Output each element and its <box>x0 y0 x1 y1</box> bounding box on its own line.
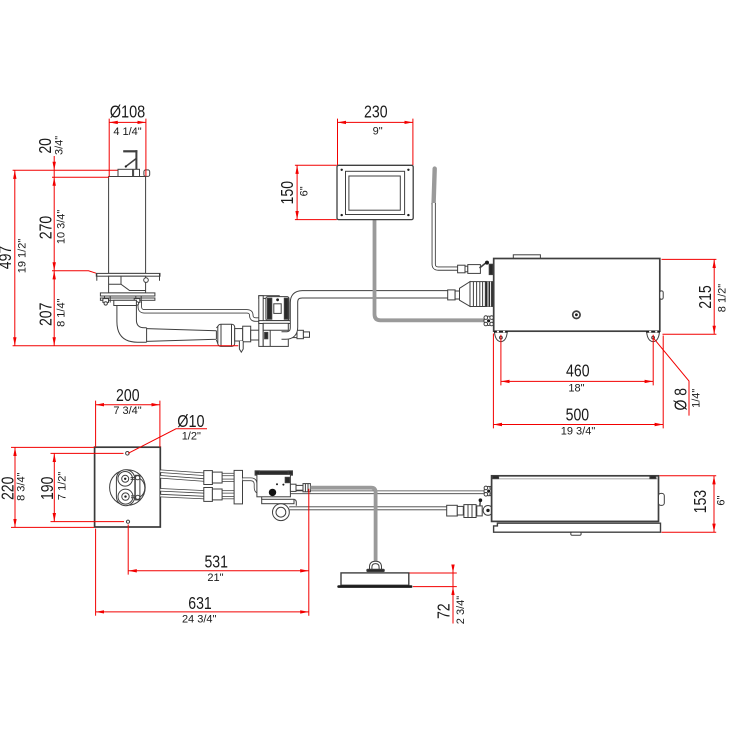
svg-text:21": 21" <box>207 572 223 584</box>
dim Ø10 leader <box>128 429 207 454</box>
union connector tubes lower <box>222 492 235 498</box>
svg-text:8 3/4": 8 3/4" <box>16 472 28 500</box>
boiler feed tube with J-loop (side view) <box>282 294 448 335</box>
sensor cable valve to puck <box>310 488 375 562</box>
long tube grommet to boiler (bottom) <box>289 506 447 510</box>
dim 200 extension lines <box>96 401 160 448</box>
faucet cylinder body <box>109 177 146 274</box>
svg-text:19 3/4": 19 3/4" <box>561 426 596 438</box>
svg-text:497: 497 <box>0 246 15 270</box>
svg-text:Ø108: Ø108 <box>110 102 146 122</box>
tailpiece <box>114 300 137 305</box>
boiler inlet cone fitting (side view) <box>448 282 493 307</box>
plate hole bottom <box>126 520 129 523</box>
boiler left foot <box>494 331 508 342</box>
supply tube fan 3 <box>160 490 205 492</box>
union fittings upper <box>204 471 222 485</box>
faucet handle <box>123 150 137 169</box>
svg-text:Ø 8: Ø 8 <box>671 388 691 411</box>
dim 190 line <box>53 453 55 521</box>
dim 20 arrow <box>53 156 55 170</box>
dim 460 line <box>501 380 653 382</box>
svg-text:270: 270 <box>36 216 56 240</box>
svg-text:460: 460 <box>566 361 590 381</box>
supply tube fan 4 <box>160 496 205 498</box>
tube valve to boiler gland (bottom) <box>243 479 484 492</box>
boiler right foot <box>646 331 660 342</box>
svg-text:8 1/2": 8 1/2" <box>717 284 729 312</box>
dim 215 line <box>713 259 715 334</box>
dim 531 extension lines <box>128 489 309 616</box>
mounting bracket (bottom view) <box>234 470 242 504</box>
svg-text:207: 207 <box>36 303 56 327</box>
dim Ø108 extension lines <box>109 119 146 177</box>
svg-text:1/4": 1/4" <box>691 389 703 408</box>
svg-text:7 1/2": 7 1/2" <box>56 472 68 500</box>
dim 200 line <box>96 404 160 406</box>
svg-text:230: 230 <box>364 102 388 122</box>
solenoid valve bracket <box>259 296 279 347</box>
dim 270 bottom extension <box>52 271 96 273</box>
faucet elbow pipe (side view) <box>117 305 216 342</box>
svg-text:24 3/4": 24 3/4" <box>182 613 217 625</box>
dim 153 extension lines <box>660 476 717 532</box>
svg-text:190: 190 <box>37 477 57 501</box>
dim 220 extension lines <box>11 447 94 527</box>
dim Ø108 line <box>109 121 146 123</box>
dim Ø8 leader <box>653 338 689 416</box>
dim 150 extension lines <box>295 165 337 219</box>
dim 270 line <box>53 177 55 271</box>
valve outlet fittings (bottom) <box>290 484 310 492</box>
svg-text:20: 20 <box>35 138 55 154</box>
svg-text:3/4": 3/4" <box>53 136 65 155</box>
dim 230 line <box>338 121 413 123</box>
svg-text:18": 18" <box>568 382 584 394</box>
svg-text:9": 9" <box>373 125 383 137</box>
control panel <box>337 165 413 219</box>
inline valve on riser tube <box>458 261 493 275</box>
dim 500 line <box>493 424 663 426</box>
dim 20 extension lines <box>13 170 118 177</box>
dim 72 arrows <box>452 565 454 573</box>
supply tube fan 1 <box>160 471 205 474</box>
svg-text:631: 631 <box>188 593 212 613</box>
mounting flange plates <box>100 293 154 305</box>
dim 497 line <box>14 170 16 345</box>
cable gland at boiler (side) <box>484 316 494 326</box>
boiler tank (bottom view) <box>492 476 665 522</box>
svg-text:150: 150 <box>277 181 297 205</box>
svg-text:4 1/4": 4 1/4" <box>113 126 141 138</box>
dim 72 extension lines <box>410 573 457 587</box>
svg-text:Ø10: Ø10 <box>177 411 204 431</box>
dim 220 line <box>14 447 16 527</box>
puck dome <box>367 561 385 571</box>
dim 215 extension lines <box>662 259 717 334</box>
solenoid valve body <box>259 321 294 347</box>
sink plate <box>95 447 161 527</box>
dim 230 extension lines <box>338 119 413 165</box>
union connector tubes upper <box>222 475 235 481</box>
svg-text:6": 6" <box>298 186 310 196</box>
svg-text:6": 6" <box>715 495 727 505</box>
boiler inlet fittings (bottom) <box>447 498 493 517</box>
valve assembly side view: inlet nut <box>216 324 263 352</box>
supply tube fan 2 <box>160 477 205 480</box>
dim 631 line <box>96 611 309 613</box>
boiler tank (side view) <box>494 255 664 331</box>
cable gland at boiler (bottom) <box>484 486 494 496</box>
water riser rod <box>434 169 435 204</box>
svg-text:8 1/4": 8 1/4" <box>55 298 67 326</box>
counter bracket <box>96 273 160 280</box>
dim 631 left extension <box>95 529 97 616</box>
svg-text:1/2": 1/2" <box>182 431 201 443</box>
dim 190 extension lines <box>51 453 125 521</box>
faucet shank (bottom view) <box>110 470 146 506</box>
svg-text:72: 72 <box>434 603 454 619</box>
svg-text:200: 200 <box>116 385 140 405</box>
plate hole top <box>126 452 130 456</box>
svg-text:215: 215 <box>695 285 715 309</box>
svg-text:531: 531 <box>204 552 228 572</box>
grommet bracket below valve <box>262 497 297 521</box>
boiler base plate (bottom view) <box>494 523 661 535</box>
puck disc <box>341 573 409 585</box>
dim 500 extension lines <box>493 334 663 429</box>
svg-text:10 3/4": 10 3/4" <box>56 210 68 245</box>
faucet spout nub <box>144 170 150 177</box>
faucet top cap blocks <box>118 169 133 176</box>
faucet under-counter body <box>109 276 149 293</box>
svg-text:19 1/2": 19 1/2" <box>16 239 28 274</box>
control cable panel to boiler <box>375 220 484 320</box>
svg-text:500: 500 <box>566 405 590 425</box>
dim 531 line <box>128 570 309 572</box>
dim 150 line <box>296 165 298 219</box>
faucet thin outlet tube to valve (side view) <box>140 302 263 320</box>
dim 460 extension lines <box>501 335 653 386</box>
valve outlet fitting (side) <box>288 330 309 338</box>
dim 207 line <box>53 271 55 346</box>
riser tube to inline valve <box>434 203 458 269</box>
union fittings lower <box>204 488 222 502</box>
dim 153 line <box>713 476 715 532</box>
solenoid valve (bottom view) <box>255 471 292 497</box>
puck base band <box>337 585 412 588</box>
svg-text:153: 153 <box>690 490 710 513</box>
svg-text:2 3/4": 2 3/4" <box>455 596 467 624</box>
dim 497/207 bottom extension <box>13 345 239 347</box>
svg-text:7 3/4": 7 3/4" <box>113 405 141 417</box>
solenoid coil <box>266 297 289 321</box>
